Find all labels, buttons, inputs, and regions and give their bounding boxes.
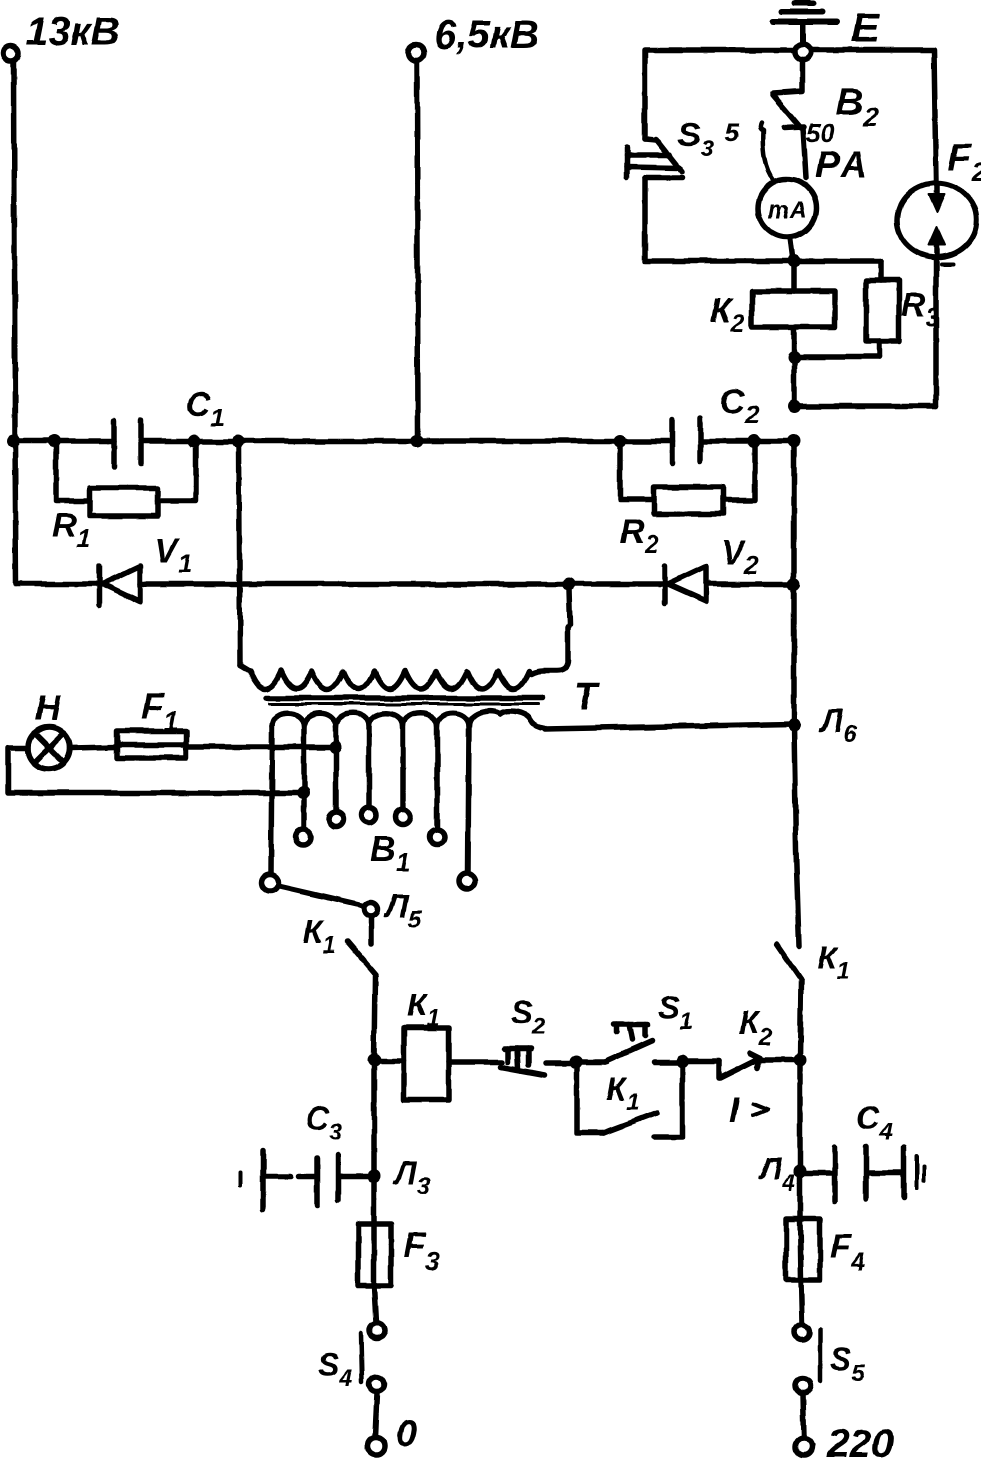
wire meter to node [790,237,793,261]
node right chain [794,1054,807,1067]
svg-text:В2: В2 [836,82,878,132]
selector B1 tap 5 [396,726,411,825]
wire bus to transformer primary [239,441,240,665]
svg-text:К1: К1 [303,914,336,959]
node bus 6.5kV [411,435,424,448]
transformer T secondary [272,711,545,728]
node left chain [368,1054,381,1067]
wire S2 to node [546,1060,576,1066]
wire primary right end up to diode line [531,589,570,674]
wire S3 lower [645,178,794,261]
node bus right [788,435,801,448]
bus wire [13,438,114,444]
lamp H [28,687,70,769]
node L5 [364,888,422,933]
svg-text:C2: C2 [720,383,759,429]
relay coil K1 [374,987,449,1100]
svg-text:C1: C1 [186,386,224,432]
node below meter [788,255,801,268]
svg-text:S5: S5 [830,1341,865,1387]
arrester F2 [897,137,981,406]
contact K1 aux [577,1063,682,1137]
diode V2 [665,534,794,603]
button S2 [501,994,546,1075]
node bus transformer [232,435,245,448]
wire fuse to tap3 [186,744,335,750]
switch S5 [795,1325,866,1394]
svg-text:В1: В1 [370,828,410,877]
contact K1 right [777,940,850,985]
resistor R1 [52,443,196,553]
wire K1 to node [374,975,375,1060]
wire left vertical to diode line [15,441,16,584]
wire node to F3 [371,1060,377,1224]
selector B1 tap 7 [459,726,475,889]
svg-text:F4: F4 [830,1228,865,1276]
svg-text:К1: К1 [606,1071,639,1116]
svg-text:0: 0 [396,1413,417,1455]
terminal 0 [368,1413,418,1455]
node bus R2 left [614,435,627,448]
svg-text:5: 5 [725,117,740,147]
svg-text:V2: V2 [721,534,758,580]
svg-text:C3: C3 [306,1100,343,1146]
wire node to F2 bottom rail [791,357,797,406]
node bus R1 left [48,435,61,448]
wire F4 to S5 [801,1280,802,1324]
selector B1 tap 1 [262,726,279,892]
svg-text:Л4: Л4 [758,1151,795,1197]
wire node to L4 [797,1061,803,1171]
node L6 [788,703,857,748]
svg-text:F3: F3 [404,1226,440,1276]
svg-text:220: 220 [826,1422,894,1460]
ground [773,3,837,45]
selector arm B1 [278,886,364,906]
selector B1 tap 6 [430,726,445,845]
diode V1 [16,532,663,605]
node diode line right [788,578,801,591]
svg-text:R3: R3 [901,286,939,332]
capacitor C3 [241,1100,374,1210]
milliammeter PA [758,179,816,237]
svg-text:E: E [851,4,881,51]
wire F3 to S4 [374,1286,376,1323]
node bus R2 right [748,435,761,448]
wire L5 down [368,916,374,944]
capacitor C4 [800,1100,924,1201]
capacitor C2 [672,383,759,464]
terminal 6.5kV [408,13,539,61]
svg-text:R2: R2 [620,513,659,559]
svg-text:S2: S2 [511,994,546,1040]
transformer T primary [240,665,529,689]
svg-text:Н: Н [35,687,62,728]
wire K1 to node [800,979,801,1060]
wire S5 to terminal [803,1394,804,1438]
node lamp loop tap2 [297,787,310,800]
svg-text:13кВ: 13кВ [26,10,120,54]
node diode line tap [563,578,576,591]
node bus R1 right [188,435,201,448]
svg-text:S1: S1 [658,989,693,1035]
node S2 right [570,1056,583,1069]
switch S3 [627,116,740,178]
capacitor C1 [114,386,224,467]
fuse F3 [358,1224,440,1286]
svg-text:S4: S4 [318,1347,353,1392]
fuse F4 [786,1171,865,1280]
svg-text:R1: R1 [52,507,90,553]
terminal 13kV [4,10,120,61]
wire lamp left loop [8,748,303,793]
svg-text:К2: К2 [710,292,745,338]
resistor R3 [794,261,939,357]
wire top loop [645,50,936,182]
svg-text:T: T [574,676,600,718]
wire lamp to fuse [70,747,117,748]
wire 13kV down to bus [14,61,15,441]
wire secondary to node L6 [545,724,794,729]
button S1 [576,989,693,1062]
svg-text:Л3: Л3 [393,1155,431,1200]
resistor R2 [620,443,755,559]
transformer T core [266,695,542,701]
terminal 220 [796,1422,894,1460]
switch S4 [318,1324,385,1393]
svg-text:F2: F2 [948,137,981,187]
svg-text:Л5: Л5 [384,888,422,933]
node S1 right [676,1055,689,1068]
contact K1 left [303,914,376,975]
node below K2 [788,351,801,364]
wire main vertical L6 to K1 [794,441,799,946]
selector B1 tap 3 [329,726,344,827]
svg-text:V1: V1 [155,532,192,578]
svg-text:S3: S3 [678,116,715,163]
svg-text:6,5кВ: 6,5кВ [434,13,539,57]
relay coil K2 [710,261,835,356]
contact K2 overcurrent [682,1005,794,1130]
node E [795,4,881,60]
fuse F1 [117,686,186,758]
svg-text:C4: C4 [856,1100,892,1146]
selector B1 tap 4 [362,726,377,823]
svg-text:К2: К2 [739,1005,773,1051]
node L4 [758,1151,807,1197]
node bus left [6,434,20,448]
svg-text:РА: РА [815,144,870,185]
wire coil to S2 [449,1059,502,1065]
svg-text:mA: mA [768,197,807,224]
svg-text:Л6: Л6 [819,703,857,748]
breaker B2 [760,60,879,185]
node L3 [368,1155,431,1200]
wire S4 to terminal [375,1393,377,1437]
node wire tap3 [329,741,342,754]
wire 6.5kV down to bus [417,62,418,441]
svg-text:I: I [729,1089,740,1130]
svg-text:К1: К1 [817,940,850,985]
selector B1 tap 2 [296,726,311,845]
